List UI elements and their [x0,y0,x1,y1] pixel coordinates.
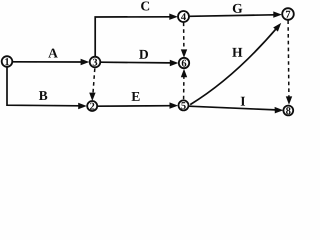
wire G (activity G: 4 to 7) [189,15,274,16]
label E [132,92,140,101]
node 7 circle [282,8,294,20]
arrowhead into node 8 top [286,96,292,104]
node 7 label "7" [286,11,290,18]
arrowhead into node 2 [78,103,87,109]
node 3 circle [90,57,101,68]
node 5 circle [179,100,189,110]
wire E (activity E: 2 to 5) [98,105,171,108]
label G [233,4,242,13]
node 1 circle [2,56,13,67]
dashed dummy wire 3 to 2 [93,69,95,95]
label D [139,50,148,59]
arrowhead into node 6 [170,60,179,66]
wire H (activity H: 5 diagonal up to 7) [190,28,277,105]
node 4 label "4" [181,13,186,20]
arrowhead into node 2 top [89,93,95,101]
node 5 label "5" [181,102,185,109]
dashed dummy wire 7 to 8 [287,20,290,96]
node 2 circle [87,101,97,111]
node 1 label "1" [5,58,9,65]
arrowhead into node 6 bottom [181,69,187,77]
wire I (activity I: 5 to 8) [189,106,276,110]
node 6 label "6" [182,60,187,67]
node 6 circle [179,58,189,68]
node 3 label "3" [93,59,98,66]
label A [48,49,58,58]
arrowhead into node 7 [273,11,282,17]
arrowhead into node 3 [81,59,90,65]
label I [241,97,245,106]
node 8 label "8" [286,107,291,114]
dashed dummy wire 5 to 6 [183,76,185,100]
label H [232,48,242,57]
arrowhead into node 5 [170,102,179,108]
label C [141,1,149,10]
node 8 circle [283,106,293,116]
label B [39,91,47,100]
node 2 label "2" [90,103,94,110]
dashed dummy wire 4 to 6 [183,23,185,52]
wire C (activity C: 3 up then right to 4) [95,17,170,57]
arrowhead into node 7 from below [273,23,281,32]
arrowhead into node 8 [275,107,284,114]
node 4 circle [178,11,189,22]
arrowhead into node 6 top [181,49,187,57]
wire A (activity A: 1 to 3) [13,61,82,63]
wire B (activity B: 1 down then right to 2) [7,67,79,106]
wire D (activity D: 3 to 6) [101,61,171,64]
arrowhead into node 4 [169,14,178,20]
